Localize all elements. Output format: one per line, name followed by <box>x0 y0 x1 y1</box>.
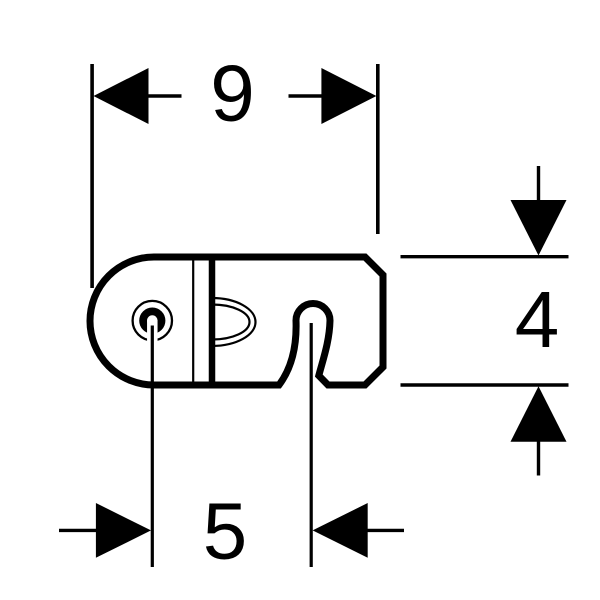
dim4 top extension line <box>401 255 569 258</box>
fold line thick <box>209 257 216 385</box>
dim9 left tail <box>148 94 182 98</box>
dim9 left arrow <box>94 68 149 124</box>
tab inner half-ellipse <box>212 305 250 340</box>
tab outer half-ellipse <box>212 298 256 346</box>
dim4 down arrow tail <box>537 166 540 201</box>
leader line hole <box>151 326 154 568</box>
dim9 right arrow <box>321 68 376 124</box>
bracket outline <box>90 257 383 385</box>
dim4 bottom extension line <box>401 383 569 386</box>
svg-text:5: 5 <box>203 487 248 576</box>
dim5 right arrow <box>313 503 368 558</box>
svg-text:9: 9 <box>210 49 255 138</box>
dim9 right tail <box>289 94 323 98</box>
dim9 left extension line <box>90 64 94 288</box>
dim4 up arrow tail <box>537 441 540 475</box>
dim5 right tail <box>367 529 404 532</box>
svg-text:4: 4 <box>515 275 560 364</box>
leader halo <box>147 321 158 346</box>
leader line slot <box>310 323 313 567</box>
dim5 left tail <box>59 529 96 532</box>
fold line thin <box>192 259 194 383</box>
hole inner ring <box>143 311 161 329</box>
dim4 down arrow <box>511 200 567 256</box>
dim5 left arrow <box>96 503 151 558</box>
dim9 right extension line <box>376 64 380 234</box>
dim4 up arrow <box>511 386 567 442</box>
hole outer circle <box>133 301 172 340</box>
